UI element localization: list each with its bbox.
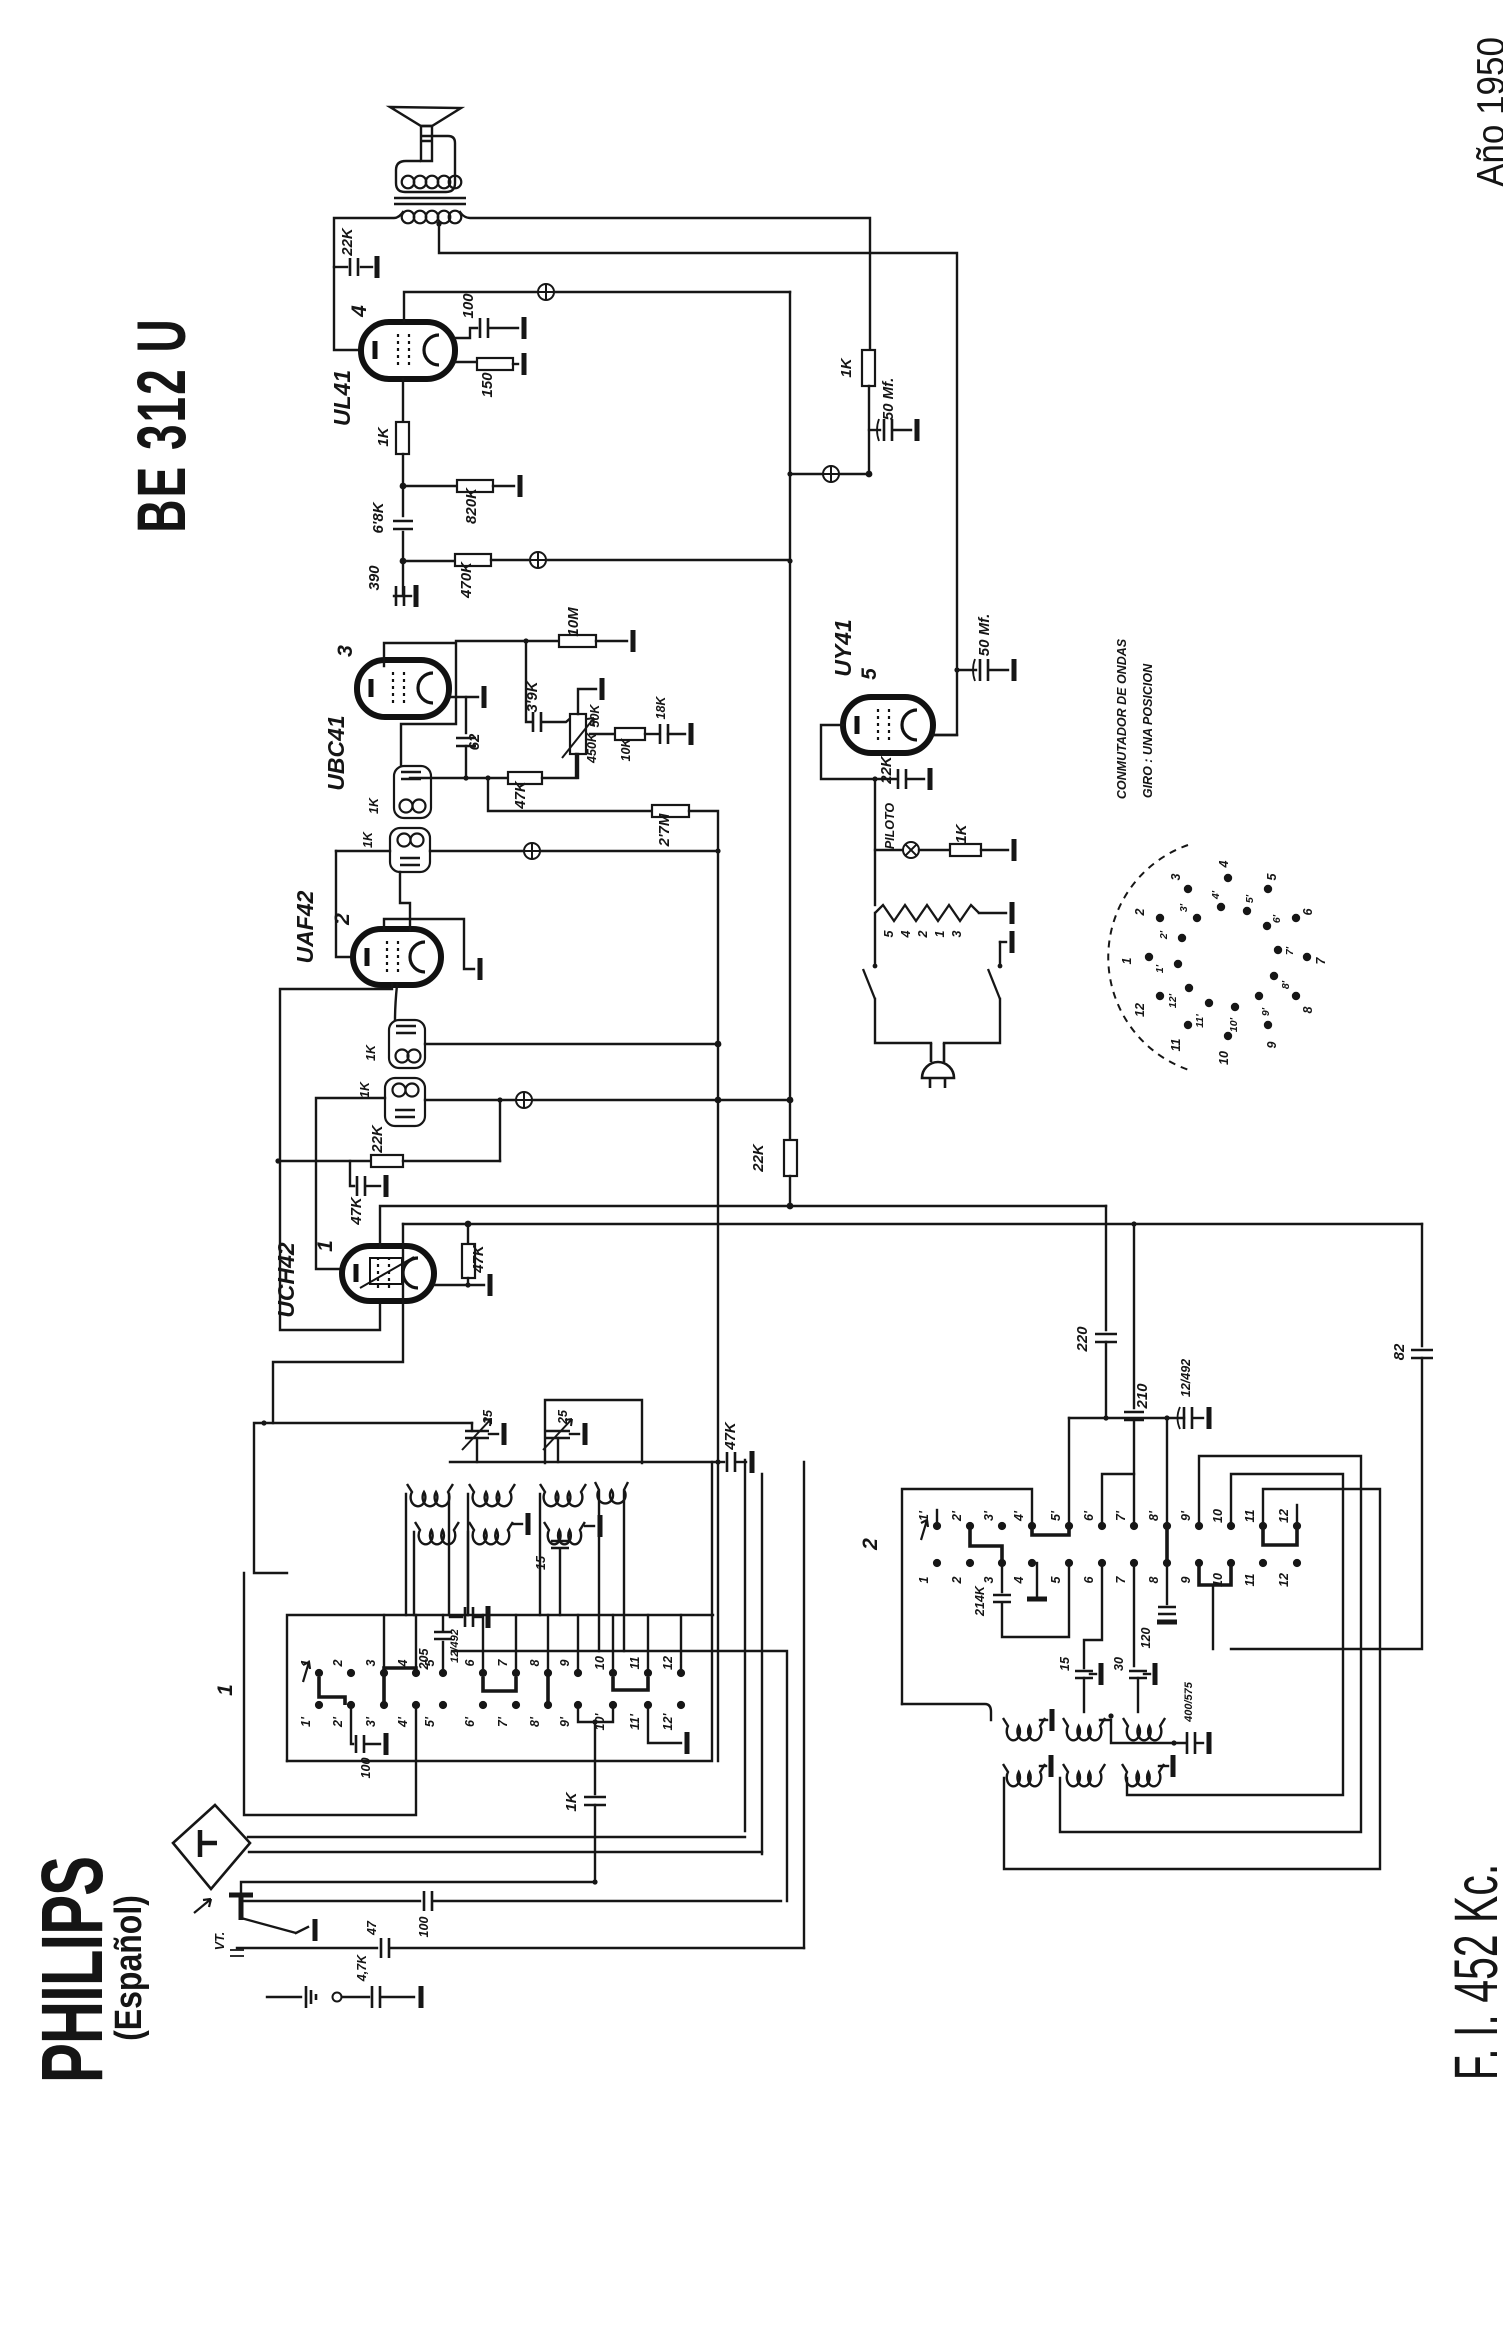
resistor 47K bbox=[508, 772, 542, 784]
wire osc coil feeds bbox=[598, 1492, 600, 1651]
svg-text:5': 5' bbox=[1049, 1510, 1063, 1521]
PU jack bbox=[229, 1895, 253, 1920]
svg-text:4,7K: 4,7K bbox=[355, 1954, 369, 1982]
svg-text:25: 25 bbox=[481, 1409, 495, 1425]
svg-text:3': 3' bbox=[364, 1716, 378, 1727]
capacitor 47 bbox=[381, 1938, 389, 1958]
svg-text:11: 11 bbox=[1243, 1573, 1257, 1586]
wire coil to contact drops bank1 bbox=[405, 1494, 407, 1615]
rotary switch contact ring bbox=[1145, 953, 1153, 961]
svg-text:100: 100 bbox=[359, 1758, 373, 1779]
svg-text:1: 1 bbox=[933, 930, 947, 937]
capacitor 50Mf lower bbox=[954, 667, 959, 672]
wire 6-prime 7-prime link bbox=[1102, 1474, 1134, 1526]
wire UY41 cathode to HT bbox=[933, 734, 957, 736]
svg-text:1: 1 bbox=[314, 1240, 337, 1252]
ground UCH42 cathode bbox=[434, 1284, 484, 1286]
svg-text:VT.: VT. bbox=[213, 1932, 227, 1951]
switch bank 2 contacts row primed bbox=[933, 1522, 941, 1530]
svg-text:1: 1 bbox=[214, 1684, 237, 1696]
svg-text:4': 4' bbox=[1210, 890, 1222, 900]
wire AVC return bbox=[241, 1882, 595, 1901]
svg-text:6': 6' bbox=[1082, 1510, 1096, 1521]
svg-text:F. I. 452 Kc.: F. I. 452 Kc. bbox=[1443, 1864, 1503, 2080]
switch bank 1 box bbox=[287, 1615, 713, 1761]
wire antenna line 2 riser bbox=[761, 1474, 763, 1854]
svg-text:62: 62 bbox=[466, 733, 483, 750]
svg-text:CONMUTADOR DE ONDAS: CONMUTADOR DE ONDAS bbox=[1115, 638, 1129, 799]
resistor 2.7M bbox=[488, 778, 652, 811]
svg-text:5: 5 bbox=[882, 929, 896, 937]
svg-text:1': 1' bbox=[1154, 964, 1166, 973]
svg-text:22K: 22K bbox=[878, 755, 895, 785]
svg-text:1': 1' bbox=[299, 1716, 313, 1727]
wire detector vertical bbox=[715, 848, 720, 853]
svg-text:10K: 10K bbox=[619, 738, 633, 762]
capacitor 210 bbox=[1133, 1224, 1135, 1408]
capacitor 15 osc bbox=[559, 1532, 561, 1538]
svg-text:PILOTO: PILOTO bbox=[883, 803, 897, 850]
wire B+ top bus to 1K dropper bbox=[460, 212, 870, 348]
svg-text:150: 150 bbox=[479, 372, 496, 398]
svg-text:7: 7 bbox=[1114, 1575, 1128, 1583]
svg-text:4: 4 bbox=[1012, 1576, 1026, 1584]
svg-text:2': 2' bbox=[1158, 930, 1170, 940]
capacitor 400/575 padder bbox=[1187, 1732, 1195, 1754]
svg-text:7': 7' bbox=[1114, 1510, 1128, 1521]
resistor 470K bbox=[400, 558, 407, 565]
coil L13 bbox=[1122, 1764, 1164, 1786]
wire link to 22K grid resistor bbox=[499, 1100, 501, 1161]
svg-text:2': 2' bbox=[331, 1716, 345, 1728]
coil L7 bbox=[544, 1522, 585, 1544]
svg-text:Año 1950: Año 1950 bbox=[1469, 37, 1503, 187]
svg-text:6'8K: 6'8K bbox=[370, 501, 387, 533]
wire T4 left to UCH42 grid loop bbox=[316, 1098, 385, 1269]
ground heater tap bbox=[1000, 941, 1006, 943]
tube UY41 bbox=[843, 697, 933, 753]
svg-text:2': 2' bbox=[950, 1510, 964, 1522]
svg-text:11: 11 bbox=[628, 1656, 642, 1669]
resistor 1K (smoothing) bbox=[862, 350, 875, 386]
wire AVC to UAF42 grid bbox=[336, 851, 354, 957]
title BE 312 U bbox=[124, 317, 200, 532]
svg-text:47: 47 bbox=[365, 1920, 379, 1936]
capacitor 47K with ground bbox=[350, 1161, 354, 1186]
svg-text:4: 4 bbox=[348, 305, 371, 318]
trimmer 25 a bbox=[471, 1423, 473, 1431]
wire osc return route C bbox=[1004, 1489, 1380, 1869]
resistor 10K bbox=[590, 733, 615, 735]
svg-text:214K: 214K bbox=[973, 1585, 987, 1617]
svg-text:9: 9 bbox=[1265, 1041, 1279, 1048]
svg-text:BE 312 U: BE 312 U bbox=[124, 317, 200, 532]
IF transformer T2 primary bbox=[390, 828, 430, 872]
ground bank2 contact 4 bbox=[1036, 1563, 1038, 1596]
svg-text:3': 3' bbox=[1178, 903, 1190, 912]
svg-text:8: 8 bbox=[1147, 1576, 1161, 1583]
svg-text:2: 2 bbox=[331, 913, 354, 926]
coil L1 bbox=[407, 1484, 453, 1506]
svg-text:12/492: 12/492 bbox=[1179, 1359, 1193, 1397]
svg-text:3: 3 bbox=[1169, 873, 1183, 880]
svg-text:11: 11 bbox=[1243, 1509, 1257, 1522]
capacitor 100 (plate bypass) bbox=[455, 328, 477, 338]
subtitle (Espanol) bbox=[107, 1895, 149, 2041]
svg-text:7: 7 bbox=[1314, 956, 1328, 964]
svg-text:470K: 470K bbox=[458, 561, 475, 599]
svg-text:2: 2 bbox=[916, 930, 930, 938]
wire UAF42 plate to T3 bbox=[395, 985, 397, 1020]
svg-text:10: 10 bbox=[593, 1656, 607, 1670]
capacitor 22K (tone) bbox=[334, 266, 347, 268]
svg-text:1K: 1K bbox=[375, 426, 392, 446]
tube UBC41 bbox=[357, 660, 449, 717]
svg-text:3: 3 bbox=[982, 1576, 996, 1583]
svg-text:11': 11' bbox=[628, 1713, 642, 1730]
svg-text:4': 4' bbox=[396, 1716, 410, 1728]
svg-text:11': 11' bbox=[1194, 1014, 1206, 1028]
svg-text:10: 10 bbox=[1217, 1051, 1231, 1065]
wire AF line with resistor 2.7M bbox=[410, 777, 508, 779]
svg-text:120: 120 bbox=[1139, 1628, 1153, 1649]
wire outer loop left bbox=[244, 1573, 416, 1815]
svg-text:1: 1 bbox=[917, 1576, 931, 1583]
IF transformer T4 bbox=[385, 1078, 425, 1126]
svg-text:1K: 1K bbox=[367, 797, 381, 814]
switch bank 1 wiper arrow bbox=[303, 1662, 310, 1682]
svg-text:8: 8 bbox=[1301, 1006, 1315, 1013]
coil L6 bbox=[469, 1522, 513, 1544]
svg-text:10': 10' bbox=[1228, 1017, 1240, 1032]
svg-text:205: 205 bbox=[417, 1648, 431, 1671]
resistor 10M bbox=[456, 640, 559, 642]
wire padder chain 9-10 to PU bus bbox=[578, 1705, 613, 1722]
potentiometer 450K/50K volume bbox=[570, 714, 586, 754]
svg-text:3'9K: 3'9K bbox=[524, 680, 541, 712]
svg-text:2: 2 bbox=[859, 1538, 882, 1551]
wire 1K to junction bbox=[868, 386, 870, 474]
svg-text:47K: 47K bbox=[512, 780, 529, 810]
coil L9 bbox=[1063, 1718, 1105, 1740]
PU switch blade bbox=[241, 1918, 296, 1933]
wire UL41 plate to screen bus bbox=[404, 292, 790, 321]
capacitor 50Mf upper bbox=[869, 429, 880, 431]
switch mains right pole bbox=[999, 942, 1001, 963]
svg-text:12': 12' bbox=[661, 1713, 675, 1731]
wire trimmer bus bbox=[450, 1461, 718, 1463]
antenna bbox=[173, 1805, 250, 1889]
capacitor 22K mains bbox=[898, 769, 906, 789]
svg-text:12: 12 bbox=[661, 1656, 675, 1670]
capacitor 120 bank2 bbox=[1166, 1563, 1168, 1604]
speaker voice coil bbox=[402, 176, 415, 189]
svg-text:UY41: UY41 bbox=[830, 619, 856, 677]
svg-text:50K: 50K bbox=[588, 704, 602, 728]
coil L10 bbox=[1123, 1718, 1165, 1740]
capacitor 18K bbox=[660, 724, 668, 744]
coil L12 bbox=[1063, 1764, 1105, 1786]
switch bank 2 wiper arrow bbox=[921, 1520, 928, 1540]
mains plug bbox=[931, 1043, 944, 1062]
svg-text:UAF42: UAF42 bbox=[292, 890, 318, 963]
IF transformer T3 bbox=[389, 1020, 425, 1068]
wire AVC bus bbox=[336, 850, 390, 852]
wire UAF42 top pin to T2 bbox=[400, 872, 410, 930]
capacitor 47K IF filter bbox=[718, 1461, 724, 1463]
svg-text:5: 5 bbox=[858, 668, 881, 680]
resistor 47K (cathode) bbox=[467, 1224, 469, 1244]
trimmer 25 b bbox=[546, 1431, 570, 1438]
wire bank1 bottom bus bbox=[287, 1462, 712, 1761]
wire mixer line y1651 bbox=[452, 1651, 787, 1901]
ground PU blade bbox=[296, 1927, 308, 1933]
svg-text:7': 7' bbox=[1284, 946, 1296, 955]
svg-text:1K: 1K bbox=[838, 357, 855, 377]
wire bank2 box to L8 bbox=[902, 1704, 991, 1720]
capacitor 62 bbox=[465, 697, 467, 733]
wire UAF42 diode return bbox=[280, 984, 392, 1330]
note F.I. 452 Kc. bbox=[1443, 1864, 1503, 2080]
resistor 1K (pilot shunt) bbox=[919, 849, 950, 851]
terminal circle bbox=[333, 1993, 342, 2002]
svg-text:10M: 10M bbox=[565, 607, 582, 637]
svg-text:8': 8' bbox=[1280, 980, 1292, 989]
oscillator box outline bbox=[545, 1400, 642, 1463]
wire osc return route A bbox=[1060, 1456, 1361, 1832]
wire UCH42 grid to bus1 bbox=[380, 1206, 1106, 1247]
transformer core bbox=[394, 198, 466, 204]
svg-text:82: 82 bbox=[1391, 1343, 1408, 1360]
wire screen feed junction bbox=[823, 466, 839, 482]
svg-text:8: 8 bbox=[528, 1659, 542, 1666]
wire main B+ vertical bbox=[789, 292, 791, 1140]
svg-text:9': 9' bbox=[558, 1716, 572, 1727]
ground bank1 11-12 bbox=[648, 1705, 681, 1743]
switch bank 1 bridge contacts bbox=[319, 1677, 345, 1705]
capacitor 220 bbox=[1105, 1206, 1107, 1330]
IF transformer T2 secondary bbox=[394, 766, 431, 818]
svg-text:6: 6 bbox=[463, 1658, 477, 1666]
resistor 22K (osc grid) bbox=[278, 1160, 371, 1162]
svg-text:5': 5' bbox=[1244, 894, 1256, 903]
wire top link left bbox=[254, 1423, 287, 1573]
svg-text:GIRO : UNA POSICION: GIRO : UNA POSICION bbox=[1141, 663, 1155, 798]
wire antenna line 1 riser bbox=[744, 1460, 746, 1831]
svg-text:4': 4' bbox=[1012, 1510, 1026, 1522]
wire grid return line bbox=[237, 1947, 377, 1949]
wire bank2 interstage drops bbox=[936, 1510, 938, 1526]
coil L8 bbox=[1003, 1718, 1045, 1740]
svg-text:4: 4 bbox=[899, 930, 913, 938]
svg-text:6: 6 bbox=[1301, 907, 1315, 915]
wire osc coupling node bbox=[1069, 1417, 1184, 1419]
svg-text:8': 8' bbox=[528, 1716, 542, 1727]
capacitor 12/492 with ground bbox=[1184, 1407, 1192, 1429]
output transformer primary bbox=[402, 211, 415, 224]
wire T3 to detector line bbox=[425, 1043, 718, 1045]
svg-text:3: 3 bbox=[364, 1659, 378, 1666]
tube UCH42 bbox=[342, 1246, 434, 1301]
svg-text:22K: 22K bbox=[369, 1124, 386, 1154]
svg-text:6: 6 bbox=[1082, 1575, 1096, 1583]
svg-text:450K: 450K bbox=[585, 732, 599, 764]
coil L5 bbox=[415, 1522, 459, 1544]
svg-text:6': 6' bbox=[463, 1716, 477, 1727]
svg-text:1K: 1K bbox=[361, 831, 375, 848]
svg-text:210: 210 bbox=[1134, 1383, 1151, 1410]
capacitor 1K padder bbox=[584, 1797, 606, 1805]
svg-text:100: 100 bbox=[417, 1917, 431, 1938]
svg-text:4: 4 bbox=[1217, 860, 1231, 868]
note Ano 1950 bbox=[1469, 37, 1503, 187]
svg-text:1: 1 bbox=[1120, 957, 1134, 964]
svg-text:7: 7 bbox=[496, 1658, 510, 1666]
svg-text:(Español): (Español) bbox=[107, 1895, 149, 2041]
svg-text:3: 3 bbox=[334, 645, 357, 657]
svg-text:25: 25 bbox=[556, 1409, 570, 1425]
svg-text:9': 9' bbox=[1179, 1510, 1193, 1521]
svg-text:9': 9' bbox=[1260, 1007, 1272, 1016]
wire T4 right to bus bbox=[425, 1099, 790, 1101]
capacitor 100 PU bbox=[424, 1891, 432, 1911]
capacitor 15 bank2 bbox=[1084, 1563, 1102, 1668]
capacitor 4.7K bbox=[342, 1996, 369, 1998]
svg-text:5: 5 bbox=[1049, 1575, 1063, 1583]
capacitor 214K bbox=[1001, 1563, 1003, 1592]
svg-text:UL41: UL41 bbox=[329, 370, 355, 426]
switch bank 2 contacts row plain bbox=[933, 1559, 941, 1567]
arrow PU bbox=[194, 1899, 211, 1913]
wire HT bus from primary tap bbox=[439, 226, 957, 735]
wire UCH42 plate to bus2 bbox=[273, 1224, 403, 1423]
svg-text:1K: 1K bbox=[563, 1791, 580, 1811]
svg-text:30: 30 bbox=[1112, 1657, 1126, 1671]
svg-text:100: 100 bbox=[460, 293, 477, 319]
capacitor 30 bank2 bbox=[1133, 1563, 1135, 1666]
svg-text:50 Mf.: 50 Mf. bbox=[976, 614, 993, 657]
svg-text:11: 11 bbox=[1169, 1038, 1183, 1051]
wire primary left to C 22K node bbox=[334, 212, 403, 350]
svg-text:2: 2 bbox=[331, 1659, 345, 1667]
svg-text:47K: 47K bbox=[470, 1244, 487, 1274]
svg-text:47K: 47K bbox=[722, 1421, 739, 1451]
svg-text:UBC41: UBC41 bbox=[323, 715, 349, 790]
heater chain barretter bbox=[874, 850, 876, 905]
speaker LS bbox=[390, 107, 461, 126]
svg-text:390: 390 bbox=[366, 565, 383, 591]
svg-text:47K: 47K bbox=[348, 1196, 365, 1226]
coil L4 bbox=[595, 1482, 628, 1503]
wire PU line bbox=[241, 1900, 420, 1902]
logo PHILIPS bbox=[23, 1857, 121, 2083]
switch bank 1 contacts row primed bbox=[315, 1701, 323, 1709]
wire osc anode route bbox=[1212, 1585, 1214, 1649]
capacitor 390 to ground bbox=[394, 561, 403, 596]
svg-text:2: 2 bbox=[1133, 908, 1147, 916]
svg-text:1K: 1K bbox=[953, 823, 970, 843]
svg-text:18K: 18K bbox=[654, 696, 668, 720]
capacitor 100 bank1 bbox=[351, 1705, 353, 1744]
capacitor 3.9K bbox=[526, 641, 531, 722]
capacitor 6.8K coupling bbox=[402, 486, 404, 516]
svg-text:1K: 1K bbox=[364, 1044, 378, 1061]
svg-text:12: 12 bbox=[1277, 1509, 1291, 1523]
wire L9 junction to padder bbox=[1100, 1720, 1185, 1743]
wire UY41 anode to mains bbox=[821, 725, 896, 779]
wire UBC41 plate box bbox=[384, 643, 456, 766]
svg-text:UCH42: UCH42 bbox=[273, 1242, 299, 1318]
resistor 1K (grid stopper) bbox=[402, 379, 404, 422]
svg-text:820K: 820K bbox=[463, 487, 480, 524]
coil L3 bbox=[540, 1484, 586, 1506]
svg-text:5: 5 bbox=[1265, 872, 1279, 880]
svg-text:12: 12 bbox=[1277, 1573, 1291, 1587]
ground UBC41 cathode bbox=[449, 696, 478, 698]
svg-text:5': 5' bbox=[423, 1716, 437, 1727]
svg-text:8': 8' bbox=[1147, 1510, 1161, 1521]
svg-text:22K: 22K bbox=[339, 227, 356, 257]
svg-text:1K: 1K bbox=[358, 1081, 372, 1098]
coil L2 bbox=[469, 1484, 515, 1506]
switch bank 1 contacts row 1-12 bbox=[315, 1669, 323, 1677]
capacitor 12/492 bank1 with ground bbox=[450, 1616, 462, 1618]
svg-text:22K: 22K bbox=[750, 1143, 767, 1173]
wire osc grid line bbox=[256, 1422, 472, 1424]
svg-text:10: 10 bbox=[1211, 1509, 1225, 1523]
svg-text:9: 9 bbox=[1179, 1576, 1193, 1583]
svg-text:12/492: 12/492 bbox=[449, 1629, 461, 1663]
switch mains left pole bbox=[874, 913, 876, 963]
capacitor 205 bbox=[442, 1642, 444, 1673]
svg-text:220: 220 bbox=[1074, 1326, 1091, 1353]
resistor 820K (grid leak) bbox=[400, 483, 407, 490]
tube UAF42 bbox=[353, 929, 441, 985]
svg-text:6': 6' bbox=[1271, 914, 1283, 923]
svg-text:50 Mf.: 50 Mf. bbox=[880, 378, 897, 421]
ground chassis 3-line bbox=[267, 1996, 301, 1998]
svg-text:12': 12' bbox=[1167, 993, 1179, 1008]
rotary switch dashed arc bbox=[1108, 845, 1192, 1071]
switch bank 2 bridge contacts bbox=[970, 1526, 1002, 1563]
wire PU line riser bbox=[803, 1462, 805, 1948]
wire osc return route B bbox=[1127, 1474, 1343, 1795]
svg-text:15: 15 bbox=[1058, 1656, 1072, 1671]
tube UL41 bbox=[361, 322, 455, 379]
svg-text:2'7M: 2'7M bbox=[656, 813, 673, 847]
capacitor 82 bbox=[1421, 1224, 1423, 1346]
svg-text:3: 3 bbox=[950, 930, 964, 937]
switch bank 2 box bbox=[902, 1489, 1032, 1704]
svg-text:1': 1' bbox=[917, 1510, 931, 1521]
svg-text:12: 12 bbox=[1133, 1003, 1147, 1017]
svg-text:PHILIPS: PHILIPS bbox=[23, 1857, 121, 2083]
resistor 150 (cathode) bbox=[455, 361, 477, 363]
svg-text:7': 7' bbox=[496, 1716, 510, 1727]
svg-text:2: 2 bbox=[950, 1576, 964, 1584]
svg-text:400/575: 400/575 bbox=[1183, 1681, 1195, 1723]
svg-text:9: 9 bbox=[558, 1659, 572, 1666]
svg-text:3': 3' bbox=[982, 1510, 996, 1521]
wire UAF42 screen box and ground bbox=[384, 919, 474, 969]
resistor 22K (IF decoupling) bbox=[784, 1140, 797, 1176]
coil L11 bbox=[1003, 1764, 1045, 1786]
wire to mains plug bbox=[875, 999, 931, 1043]
wire antenna to band switch bbox=[248, 1836, 745, 1838]
